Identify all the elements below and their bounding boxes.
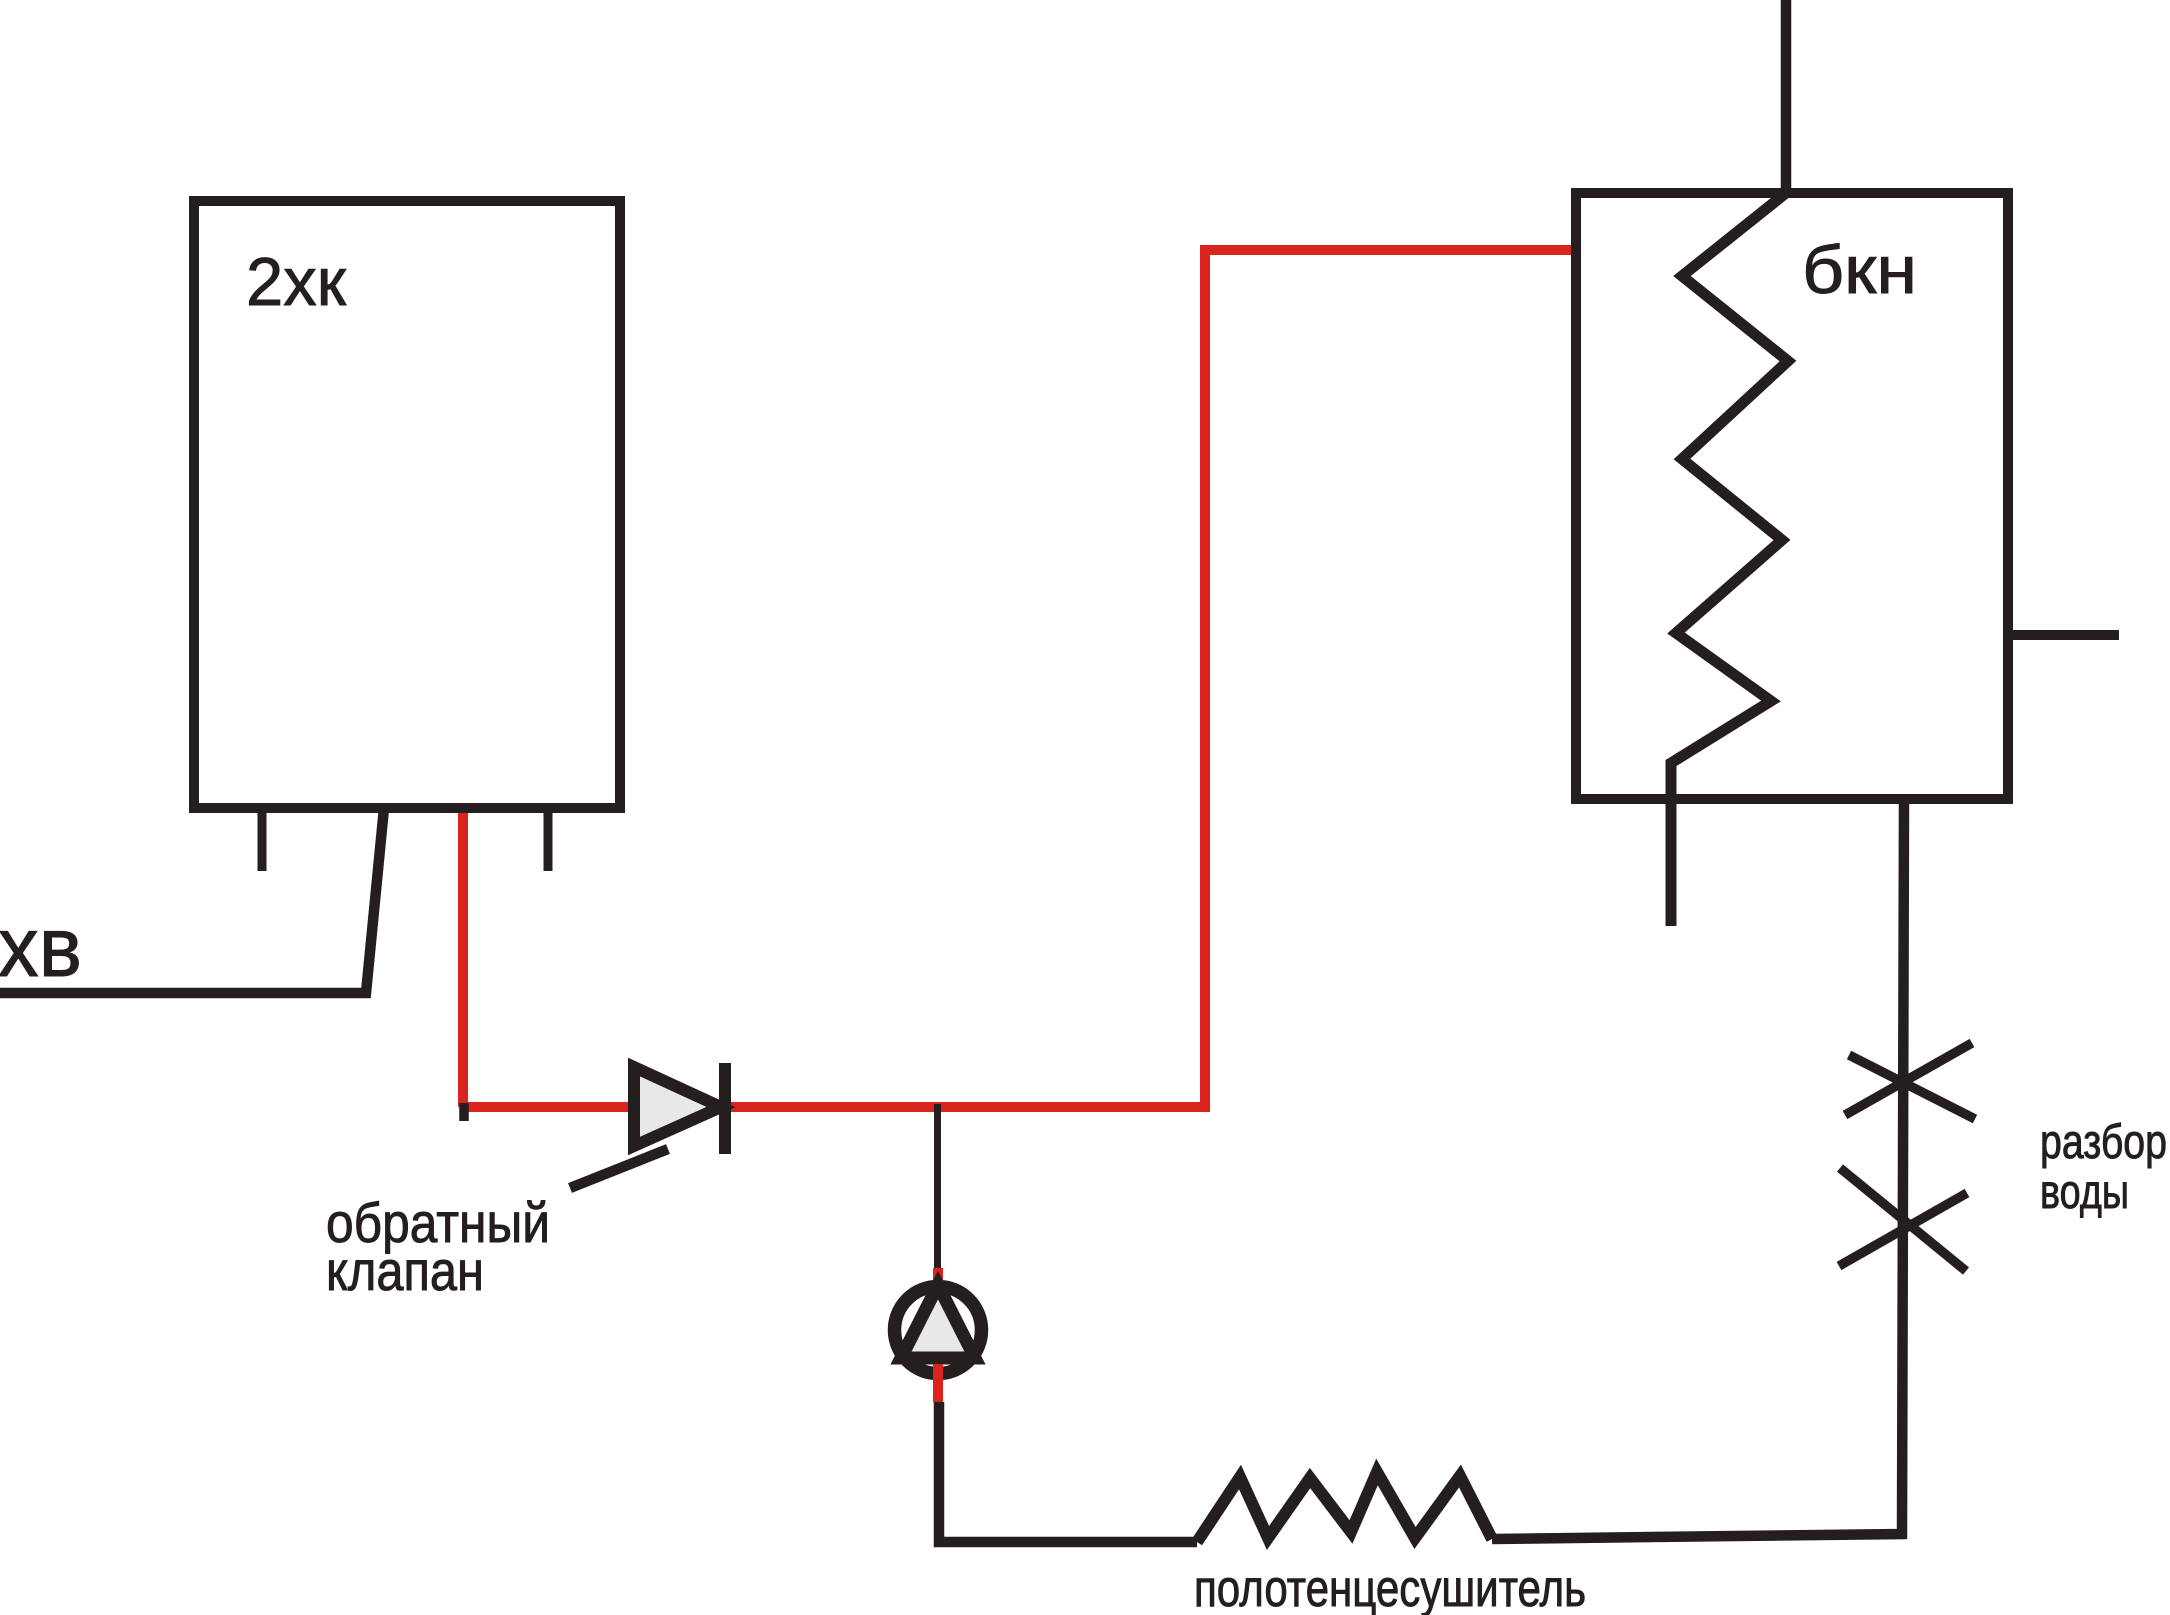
tank top pipe (1781, 0, 1792, 193)
boiler leg right (544, 808, 553, 871)
tank бкн (1576, 193, 2008, 799)
heat exchanger coil (1671, 193, 1788, 926)
check valve seat bar (719, 1063, 731, 1154)
wire: return pipe right segment and riser up to tank (1492, 799, 1904, 1539)
pump impeller triangle (901, 1285, 975, 1358)
svg-text:воды: воды (2040, 1166, 2129, 1219)
svg-text:разбор: разбор (2040, 1116, 2167, 1169)
towel rail zigzag полотенцесушитель (1197, 1472, 1492, 1542)
wire: red horizontal pipe to check valve and riser (463, 1102, 1205, 1112)
svg-text:полотенцесушитель: полотенцесушитель (1194, 1560, 1586, 1615)
wire: red supply pipe down from boiler 2хк (458, 810, 468, 1107)
boiler leg left (258, 808, 267, 871)
svg-text:2хк: 2хк (246, 244, 347, 320)
valve lower (X) (1839, 1193, 1967, 1266)
svg-text:бкн: бкн (1802, 232, 1917, 308)
valve upper (X) (1845, 1043, 1972, 1115)
wire: red riser pipe up and right to tank бкн (1205, 250, 1576, 1112)
node: black tick at red pipe corner (459, 1103, 469, 1121)
wire: return pipe from pump down and right (939, 1402, 1197, 1542)
wire: black branch down to pump (934, 1104, 941, 1268)
wire: red stub below pump (933, 1364, 943, 1402)
svg-text:клапан: клапан (326, 1239, 484, 1302)
leader line to check valve (570, 1149, 668, 1188)
tank right outlet pipe (2008, 630, 2119, 640)
wire: red stub above pump (933, 1268, 943, 1292)
wire: cold water pipe хв (0, 808, 384, 993)
svg-text:хв: хв (0, 900, 82, 994)
pump circle (895, 1287, 982, 1374)
check valve body (triangle) (634, 1067, 721, 1146)
boiler 2хк (194, 201, 620, 808)
